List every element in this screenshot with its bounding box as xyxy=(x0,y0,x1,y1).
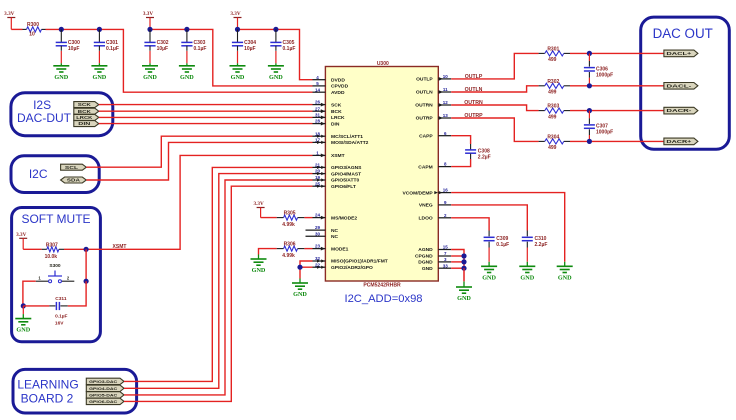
svg-text:SCK: SCK xyxy=(331,102,342,108)
svg-text:DAC-DUT: DAC-DUT xyxy=(17,111,72,125)
svg-text:13: 13 xyxy=(443,113,449,118)
wire R305 to pin24 xyxy=(304,217,312,219)
svg-text:2.2µF: 2.2µF xyxy=(478,155,491,161)
capacitor C305 xyxy=(270,29,295,52)
svg-text:10: 10 xyxy=(29,32,35,38)
resistor R307 xyxy=(42,242,64,260)
pin 15 AGND xyxy=(418,245,451,254)
svg-text:SCL: SCL xyxy=(65,165,79,170)
svg-text:R302: R302 xyxy=(547,79,559,85)
svg-text:I2C: I2C xyxy=(29,167,48,181)
ground VCOM xyxy=(557,262,573,282)
wire C311 left lead xyxy=(23,305,49,307)
power 3.3V rail 1 xyxy=(4,11,15,29)
svg-text:3.3V: 3.3V xyxy=(4,11,14,17)
svg-text:BOARD 2: BOARD 2 xyxy=(21,391,74,405)
wire CAPP to C308 xyxy=(451,136,470,144)
svg-text:SOFT MUTE: SOFT MUTE xyxy=(21,212,90,226)
wire net OUTRN xyxy=(451,105,538,111)
junction pins 32-22 xyxy=(297,265,302,270)
svg-text:R306: R306 xyxy=(284,242,296,248)
wire GND pin33 xyxy=(451,267,464,269)
wire 3.3V to R300 xyxy=(11,28,22,30)
wire rail 1 to AVDD corner xyxy=(46,29,313,92)
svg-text:GND: GND xyxy=(482,274,496,281)
svg-text:16V: 16V xyxy=(55,321,64,327)
svg-text:R303: R303 xyxy=(547,104,559,110)
port LRCK xyxy=(74,114,99,120)
svg-text:DACR+: DACR+ xyxy=(666,139,692,144)
svg-text:12: 12 xyxy=(443,100,449,105)
svg-text:16: 16 xyxy=(443,188,449,193)
wire net SDA xyxy=(86,142,312,180)
svg-text:31: 31 xyxy=(315,113,321,118)
svg-text:GND: GND xyxy=(231,74,245,81)
pin 21 GPIO3/AGNS xyxy=(313,163,363,172)
wire R303 to DACR- xyxy=(570,110,664,112)
wire net OUTLN xyxy=(451,86,538,92)
pin 9 VNEG xyxy=(419,200,451,209)
wire net XSMT xyxy=(64,155,313,249)
svg-text:1000pF: 1000pF xyxy=(596,130,613,136)
pin 27 BCK xyxy=(313,106,343,115)
junction rail3-C304 xyxy=(235,27,240,32)
pin 17 MOSI/SDA/ATT2 xyxy=(313,138,369,147)
power 3.3V R305 xyxy=(253,201,264,218)
svg-text:SDA: SDA xyxy=(67,178,80,183)
pin 30 NC xyxy=(306,231,339,240)
ground under C303 xyxy=(179,51,195,81)
svg-text:SCK: SCK xyxy=(78,102,91,107)
junction CPGND xyxy=(461,253,466,258)
pin 5 CPVDD xyxy=(313,81,349,90)
wire R306 to pin23 xyxy=(304,248,312,250)
LEARNING BOARD 2 box xyxy=(13,369,137,413)
ground under C301 xyxy=(91,51,107,81)
svg-text:OUTRP: OUTRP xyxy=(464,113,483,119)
junction rail1-C301 xyxy=(97,27,102,32)
wire net SCL xyxy=(86,136,312,167)
svg-text:15: 15 xyxy=(443,245,449,250)
svg-text:I2C_ADD=0x98: I2C_ADD=0x98 xyxy=(344,293,422,305)
pin 31 LRCK xyxy=(313,113,346,122)
wire switch pin2 to C311 xyxy=(68,281,86,306)
svg-text:499: 499 xyxy=(548,90,557,96)
svg-text:DACR-: DACR- xyxy=(666,108,692,113)
ground under C304 xyxy=(230,51,246,81)
svg-text:3.3V: 3.3V xyxy=(16,232,26,238)
svg-text:3.3V: 3.3V xyxy=(253,201,263,207)
svg-text:GND: GND xyxy=(293,291,307,298)
svg-text:0.1µF: 0.1µF xyxy=(283,46,296,52)
pin 26 SCK xyxy=(313,100,342,109)
svg-text:GND: GND xyxy=(269,74,283,81)
svg-text:GND: GND xyxy=(457,295,471,302)
svg-text:CAPM: CAPM xyxy=(418,164,432,170)
wire net GPIO4-DAC xyxy=(124,174,313,389)
ground IC xyxy=(456,268,472,302)
pin 28 DIN xyxy=(313,119,340,128)
junction XSMT-switch xyxy=(84,247,89,252)
junction C311-GND xyxy=(21,303,26,308)
svg-text:1000pF: 1000pF xyxy=(596,72,613,78)
wire rail 3 to DVDD xyxy=(238,29,313,79)
pin 2 LDOO xyxy=(419,213,452,222)
ground under R306 xyxy=(251,255,267,275)
svg-text:MODE1: MODE1 xyxy=(331,246,349,252)
junction rail3-C305 xyxy=(273,27,278,32)
pin 22 GPIO2/ADR2/GPO xyxy=(313,262,374,271)
resistor R304 xyxy=(539,134,570,151)
svg-text:BCK: BCK xyxy=(331,109,342,115)
svg-text:11: 11 xyxy=(443,87,448,92)
svg-text:LDOO: LDOO xyxy=(419,216,433,222)
svg-text:VCOM/DEMP: VCOM/DEMP xyxy=(403,190,434,196)
svg-text:29: 29 xyxy=(315,225,321,230)
port GPIO3-DAC xyxy=(86,378,124,384)
port BCK xyxy=(74,108,99,114)
svg-text:0.1µF: 0.1µF xyxy=(194,46,207,52)
wire VCOM to GND xyxy=(451,193,565,262)
svg-text:GND: GND xyxy=(422,266,433,272)
svg-text:28: 28 xyxy=(315,119,321,124)
wire CAPM to C308 xyxy=(451,159,470,167)
pin 13 OUTRP xyxy=(416,113,452,122)
port DACR- xyxy=(664,107,698,114)
wire net GPIO5-DAC xyxy=(124,180,313,395)
wire VNEG to C310 xyxy=(451,205,527,231)
pin 6 CAPP xyxy=(419,131,451,140)
wire switch pin1 left xyxy=(23,281,36,306)
svg-text:VNEG: VNEG xyxy=(419,203,433,209)
resistor R300 xyxy=(23,22,46,38)
junction rail2-C303 xyxy=(184,27,189,32)
I2C box xyxy=(11,156,99,193)
svg-text:OUTLN: OUTLN xyxy=(416,90,433,96)
svg-text:MC/SCL/ATT1: MC/SCL/ATT1 xyxy=(331,134,363,140)
capacitor C300 xyxy=(56,29,80,52)
port DACR+ xyxy=(664,138,698,145)
pin 32 MISO(GPIO1)/ADR1/FMT xyxy=(313,256,388,265)
ground C309 xyxy=(481,248,497,282)
pin 18 MC/SCL/ATT1 xyxy=(313,131,364,140)
wire net GPIO3-DAC xyxy=(124,167,313,381)
svg-text:4.99k: 4.99k xyxy=(282,253,295,259)
port GPIO4-DAC xyxy=(86,385,124,391)
wire 3.3V to R307 xyxy=(23,248,42,250)
pin 29 NC xyxy=(306,225,339,234)
svg-text:AVDD: AVDD xyxy=(331,90,345,96)
svg-text:NC: NC xyxy=(331,228,339,234)
wire net LRCK xyxy=(99,116,313,118)
svg-text:NC: NC xyxy=(331,234,339,240)
svg-text:GND: GND xyxy=(93,74,107,81)
junction switch pin2 xyxy=(84,279,89,284)
svg-text:CPGND: CPGND xyxy=(415,254,433,260)
ground under C302 xyxy=(142,51,158,81)
pin 16 VCOM/DEMP xyxy=(403,188,452,197)
junction rail1-C300 xyxy=(59,27,64,32)
svg-text:DIN: DIN xyxy=(78,121,90,126)
wire net DIN xyxy=(99,123,313,125)
svg-text:GPIO4-DAC: GPIO4-DAC xyxy=(89,386,117,391)
svg-text:23: 23 xyxy=(315,244,321,249)
I2S DAC-DUT box xyxy=(11,93,113,136)
svg-text:PCM5242RHBR: PCM5242RHBR xyxy=(363,282,401,288)
wire net BCK xyxy=(99,110,313,112)
DAC OUT box xyxy=(641,17,730,149)
svg-text:CPVDD: CPVDD xyxy=(331,84,349,90)
svg-text:3.3V: 3.3V xyxy=(143,11,153,17)
svg-text:499: 499 xyxy=(548,114,557,120)
svg-text:10: 10 xyxy=(443,74,449,79)
svg-text:OUTRP: OUTRP xyxy=(416,116,434,122)
svg-text:OUTRN: OUTRN xyxy=(415,103,433,109)
capacitor C304 xyxy=(232,29,256,52)
resistor R305 xyxy=(277,211,305,229)
svg-text:GND: GND xyxy=(180,74,194,81)
wire AGND group xyxy=(451,250,464,282)
svg-text:LRCK: LRCK xyxy=(331,115,345,121)
port GPIO5-DAC xyxy=(86,392,124,398)
junction R302-C306 xyxy=(587,83,592,88)
svg-text:26: 26 xyxy=(315,100,321,105)
svg-text:GND: GND xyxy=(520,274,534,281)
svg-text:C311: C311 xyxy=(55,296,67,302)
svg-text:R300: R300 xyxy=(27,22,39,28)
svg-text:DACL+: DACL+ xyxy=(666,51,692,56)
svg-text:AGND: AGND xyxy=(418,247,433,253)
svg-text:14: 14 xyxy=(315,87,321,92)
svg-text:0.1µF: 0.1µF xyxy=(55,314,67,320)
svg-text:GND: GND xyxy=(143,74,157,81)
port SCL xyxy=(61,164,87,170)
svg-text:10µF: 10µF xyxy=(244,46,256,52)
pin 1 XSMT xyxy=(313,151,345,160)
svg-text:DVDD: DVDD xyxy=(331,77,345,83)
wire pin22 tie xyxy=(300,267,313,278)
svg-text:2.2µF: 2.2µF xyxy=(535,242,548,248)
capacitor C301 xyxy=(94,29,119,52)
wire net GPIO6-DAC xyxy=(124,186,313,401)
svg-text:GPIO5/ATT0: GPIO5/ATT0 xyxy=(331,178,359,184)
wire DGND xyxy=(451,261,464,263)
capacitor C308 xyxy=(465,144,491,161)
svg-text:R307: R307 xyxy=(46,242,58,248)
svg-text:4.99k: 4.99k xyxy=(282,222,295,228)
junction R301-C306 xyxy=(587,51,592,56)
ground pins 32-22 xyxy=(292,279,308,299)
pin 12 OUTRN xyxy=(415,100,451,109)
power 3.3V rail 2 xyxy=(143,11,154,29)
port DACL- xyxy=(664,83,698,90)
capacitor C306 xyxy=(584,53,613,85)
power 3.3V rail 3 xyxy=(230,11,241,29)
wire junction to switch pin2 xyxy=(85,249,87,281)
wire rail 2 to CPVDD xyxy=(150,29,313,86)
wire net OUTLP xyxy=(451,53,538,79)
wire 3.3V to R305 xyxy=(261,217,277,219)
svg-text:R304: R304 xyxy=(547,134,559,140)
resistor R303 xyxy=(539,104,570,121)
svg-text:GPIO6-DAC: GPIO6-DAC xyxy=(89,399,117,404)
pin 24 MS/MODE2 xyxy=(313,213,358,222)
junction R303-C307 xyxy=(587,108,592,113)
capacitor C302 xyxy=(144,29,168,52)
svg-text:OUTLN: OUTLN xyxy=(465,87,483,93)
wire GND to R306 xyxy=(259,249,277,255)
svg-text:DIN: DIN xyxy=(331,121,340,127)
pin 11 OUTLN xyxy=(416,87,451,96)
capacitor C310 xyxy=(522,231,548,249)
junction R304-C307 xyxy=(587,139,592,144)
svg-text:0.1µF: 0.1µF xyxy=(496,242,509,248)
wire R302 to DACL- xyxy=(570,85,664,87)
capacitor C303 xyxy=(181,29,206,52)
svg-text:GPIO4/MAST: GPIO4/MAST xyxy=(331,171,361,177)
svg-text:BCK: BCK xyxy=(78,109,91,114)
capacitor C311 xyxy=(49,296,67,326)
svg-text:MISO(GPIO1)/ADR1/FMT: MISO(GPIO1)/ADR1/FMT xyxy=(331,259,388,265)
svg-text:LRCK: LRCK xyxy=(76,115,92,120)
svg-text:OUTRN: OUTRN xyxy=(464,100,483,106)
pin 33 GND xyxy=(422,263,451,272)
svg-text:GND: GND xyxy=(16,327,30,334)
svg-text:DGND: DGND xyxy=(418,260,433,266)
pin 4 DVDD xyxy=(313,75,346,84)
svg-text:24: 24 xyxy=(315,213,321,218)
svg-text:DACL-: DACL- xyxy=(666,83,692,88)
capacitor C309 xyxy=(484,231,510,249)
power 3.3V soft mute xyxy=(16,232,27,249)
pin 8 CAPM xyxy=(418,162,451,171)
ground under C300 xyxy=(53,51,69,81)
svg-text:GPIO3/AGNS: GPIO3/AGNS xyxy=(331,165,362,171)
resistor R302 xyxy=(539,79,570,96)
svg-text:27: 27 xyxy=(315,106,321,111)
IC U300 PCM5242 body xyxy=(325,67,438,282)
junction DGND xyxy=(461,259,466,264)
port DIN xyxy=(74,121,99,127)
wire net SCK xyxy=(99,104,313,106)
resistor R306 xyxy=(277,242,305,260)
svg-text:0.1µF: 0.1µF xyxy=(106,46,119,52)
pin 25 GPIO6/FLT xyxy=(313,181,356,190)
svg-text:U300: U300 xyxy=(377,61,389,67)
svg-text:3.3V: 3.3V xyxy=(230,11,240,17)
junction rail2-C302 xyxy=(147,27,152,32)
capacitor C307 xyxy=(584,111,613,142)
svg-text:CAPP: CAPP xyxy=(419,133,433,139)
svg-text:DAC OUT: DAC OUT xyxy=(653,26,713,41)
wire R301 to DACL+ xyxy=(570,52,664,54)
port DACL+ xyxy=(664,50,698,57)
port SCK xyxy=(74,102,99,108)
svg-text:GND: GND xyxy=(252,267,266,274)
ground soft mute xyxy=(15,306,31,334)
svg-text:R305: R305 xyxy=(284,211,296,217)
resistor R301 xyxy=(539,46,570,63)
svg-text:XSMT: XSMT xyxy=(331,153,345,159)
svg-text:LEARNING: LEARNING xyxy=(17,377,78,391)
svg-text:R301: R301 xyxy=(547,46,559,52)
svg-text:GPIO5-DAC: GPIO5-DAC xyxy=(89,393,117,398)
svg-text:GPIO3-DAC: GPIO3-DAC xyxy=(89,379,117,384)
svg-text:10.0k: 10.0k xyxy=(45,254,58,260)
svg-text:XSMT: XSMT xyxy=(113,244,127,250)
svg-text:10µF: 10µF xyxy=(157,46,169,52)
wire net OUTRP xyxy=(451,118,538,141)
svg-text:MOSI/SDA/ATT2: MOSI/SDA/ATT2 xyxy=(331,140,369,146)
pin 3 DGND xyxy=(418,257,451,266)
pin 23 MODE1 xyxy=(313,244,349,253)
svg-text:OUTLP: OUTLP xyxy=(416,77,433,83)
svg-text:33: 33 xyxy=(443,263,449,268)
switch S300 xyxy=(36,263,75,283)
svg-text:S300: S300 xyxy=(49,263,61,269)
ground under C305 xyxy=(268,51,284,81)
svg-text:30: 30 xyxy=(315,231,321,236)
svg-text:GND: GND xyxy=(54,74,68,81)
wire R304 to DACR+ xyxy=(570,140,664,142)
svg-text:OUTLP: OUTLP xyxy=(465,74,483,80)
svg-text:10µF: 10µF xyxy=(68,46,80,52)
svg-text:GND: GND xyxy=(558,274,572,281)
svg-text:499: 499 xyxy=(548,145,557,151)
svg-text:MS/MODE2: MS/MODE2 xyxy=(331,215,357,221)
pin 20 GPIO4/MAST xyxy=(313,169,362,178)
SOFT MUTE box xyxy=(12,208,101,342)
svg-text:499: 499 xyxy=(548,57,557,63)
wire CPGND xyxy=(451,255,464,257)
svg-text:GPIO2/ADR2/GPO: GPIO2/ADR2/GPO xyxy=(331,265,373,271)
wire pin32 tie xyxy=(300,261,313,267)
port SDA xyxy=(61,177,87,183)
pin 14 AVDD xyxy=(313,87,345,96)
ground C310 xyxy=(519,248,535,282)
junction GND33 xyxy=(461,266,466,271)
pin 10 OUTLP xyxy=(416,74,451,83)
svg-text:GPIO6/FLT: GPIO6/FLT xyxy=(331,184,356,190)
port GPIO6-DAC xyxy=(86,398,124,404)
pin 7 CPGND xyxy=(415,251,451,260)
pin 19 GPIO5/ATT0 xyxy=(313,175,360,184)
wire LDOO to C309 xyxy=(451,218,489,231)
